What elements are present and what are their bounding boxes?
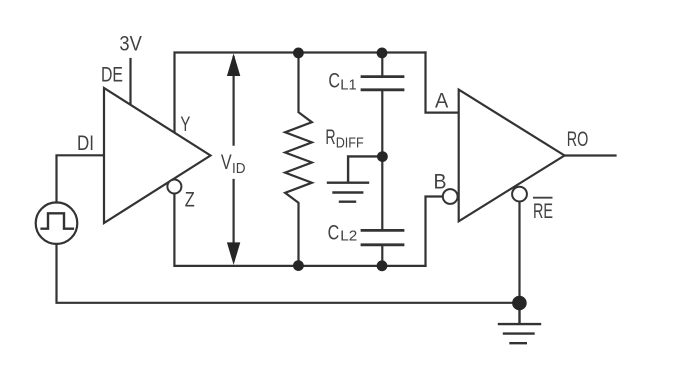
- svg-text:3V: 3V: [119, 32, 142, 56]
- ground right: [499, 303, 540, 343]
- label RDIFF: [325, 125, 363, 151]
- svg-text:DIFF: DIFF: [336, 134, 364, 151]
- svg-text:R: R: [325, 125, 335, 149]
- wire Z output and bottom rail: [174, 194, 425, 266]
- svg-text:DE: DE: [101, 63, 123, 87]
- svg-text:DI: DI: [77, 131, 94, 155]
- inverter bubble B: [443, 189, 458, 204]
- junction dot top right: [377, 48, 388, 59]
- inverter bubble RE: [512, 187, 527, 202]
- svg-text:RE: RE: [533, 199, 553, 223]
- resistor RDIFF: [285, 53, 312, 266]
- svg-text:B: B: [434, 170, 447, 194]
- arrowhead VID up: [227, 54, 240, 77]
- label CL2: [328, 220, 358, 244]
- receiver triangle U2: [459, 90, 565, 222]
- label RE with overline: [533, 198, 553, 223]
- svg-text:V: V: [221, 150, 232, 174]
- svg-text:C: C: [328, 69, 340, 93]
- junction dot middle: [377, 151, 388, 162]
- ground middle: [328, 156, 382, 201]
- svg-text:Z: Z: [185, 188, 195, 212]
- svg-text:A: A: [435, 89, 449, 113]
- arrow VID shaft lower: [233, 180, 235, 260]
- wire B input: [426, 197, 443, 266]
- wire RE enable to ground: [518, 202, 520, 303]
- driver triangle U1: [104, 88, 211, 223]
- capacitor CL1: [362, 53, 403, 229]
- svg-text:ID: ID: [232, 160, 246, 177]
- pulse source V1 circle: [36, 202, 78, 244]
- label VID: [221, 150, 246, 177]
- arrowhead VID down: [227, 242, 240, 265]
- wire DI input: [57, 155, 105, 202]
- svg-text:RO: RO: [567, 127, 589, 151]
- junction dot ground node: [512, 296, 527, 311]
- svg-text:L2: L2: [340, 228, 357, 245]
- wire A input: [426, 53, 459, 113]
- arrow VID shaft upper: [233, 57, 235, 145]
- wire RO output: [565, 154, 616, 156]
- wire pulse source to bottom return: [57, 244, 520, 303]
- svg-text:L1: L1: [340, 77, 356, 94]
- svg-text:Y: Y: [180, 112, 190, 136]
- label CL1: [328, 69, 356, 94]
- svg-text:C: C: [328, 220, 340, 244]
- junction dot top left: [293, 48, 304, 59]
- capacitor CL2: [362, 230, 403, 266]
- wire DE tied to 3V stem: [129, 59, 131, 105]
- wire top rail with Y stem: [175, 53, 426, 134]
- pulse source waveform: [42, 213, 73, 228]
- inverter bubble Z: [167, 180, 181, 194]
- junction dot bottom right: [377, 260, 388, 271]
- junction dot bottom left: [293, 260, 304, 271]
